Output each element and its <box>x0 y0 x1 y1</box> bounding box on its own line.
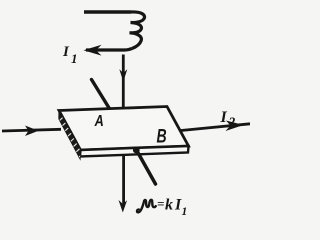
coil L1 top lead wire <box>84 10 131 13</box>
arrowhead B-field (pointing down, above plate) <box>119 69 127 81</box>
wire: magnetic-field axis from coil to plate <box>122 55 125 108</box>
wire: field axis across plate top face <box>122 107 125 148</box>
svg-text:B: B <box>157 125 167 147</box>
svg-text:I: I <box>220 109 228 126</box>
svg-text:k: k <box>165 197 173 214</box>
electrode lead to face A (diagonal stroke) <box>92 80 111 110</box>
svg-text:I: I <box>62 44 70 60</box>
arrowhead current I1 (pointing left) <box>84 45 102 56</box>
svg-text:1: 1 <box>182 206 188 218</box>
wire: field axis below plate <box>122 156 125 206</box>
wire: input lead (left) <box>2 129 61 131</box>
label I2 <box>220 109 236 130</box>
electrode lead from face B (diagonal stroke) <box>137 151 156 184</box>
svg-text:=: = <box>157 196 164 211</box>
wire: output lead I2 (right) <box>181 124 250 131</box>
label = k I1 <box>157 196 187 218</box>
arrowhead input current (pointing right) <box>25 126 39 137</box>
coil L1 winding <box>130 12 145 49</box>
svg-text:1: 1 <box>71 51 78 66</box>
Hall plate top face <box>59 107 189 151</box>
svg-text:A: A <box>94 113 104 130</box>
svg-text:2: 2 <box>228 115 236 130</box>
contact node (dot) on face B <box>133 147 140 154</box>
Hall plate front face <box>80 146 189 157</box>
label mu (script, drawn) <box>137 200 156 212</box>
coil L1 bottom lead wire <box>86 49 132 51</box>
arrowhead output current I2 (pointing right) <box>226 121 244 132</box>
Hall plate hatched left end face <box>58 111 83 159</box>
label I1 <box>62 44 78 66</box>
arrowhead B = kI1 (pointing down) <box>119 200 128 213</box>
